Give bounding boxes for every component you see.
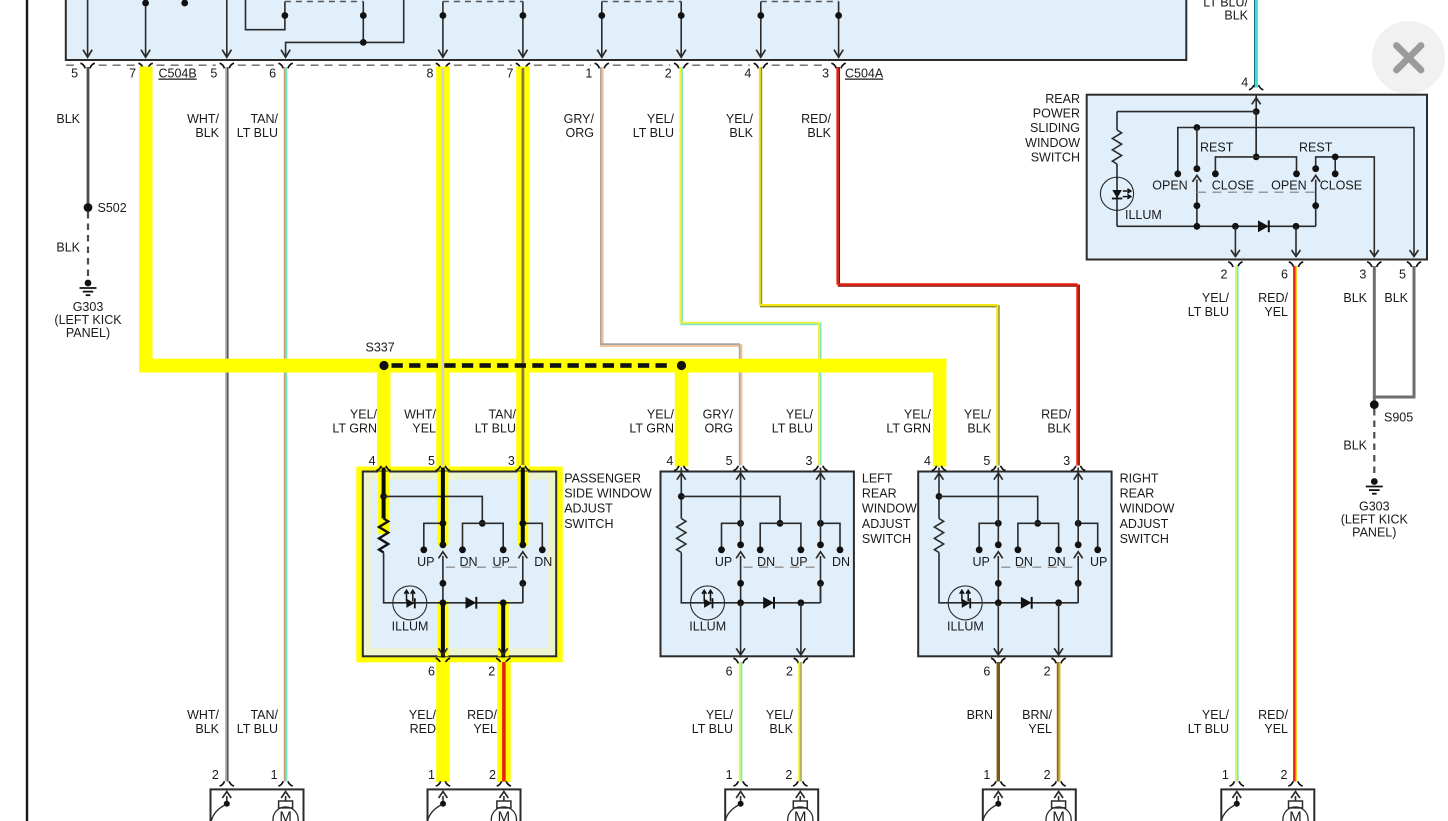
centre contact bracket [760,523,801,547]
svg-text:PANEL): PANEL) [66,326,110,340]
switch body [661,472,854,657]
svg-text:2: 2 [785,768,792,782]
svg-text:SWITCH: SWITCH [564,517,613,531]
ILLUM LED [948,586,982,620]
svg-text:RED/: RED/ [1258,708,1288,722]
svg-text:UP: UP [973,555,990,569]
svg-text:RED/: RED/ [801,112,831,126]
svg-text:OPEN: OPEN [1152,179,1187,193]
motor terminal [793,801,807,808]
svg-text:LT BLU: LT BLU [1188,722,1229,736]
svg-text:5: 5 [210,67,217,81]
wire BLK rear power pin 3 to S905 [1373,266,1376,401]
motor body [983,789,1076,821]
motor M circle [273,807,298,821]
svg-text:DN: DN [832,555,850,569]
pin 7 bracket (connector C504) [138,63,152,68]
rocker wiper 1 [736,552,745,559]
motor M circle [788,807,813,821]
feed wire to centre contacts [384,496,483,523]
svg-text:1: 1 [1222,768,1229,782]
pin 4 bracket [376,466,390,471]
node: pin4/resistor junction [1253,108,1260,115]
pin 3 internal wire / fixed contact [1077,468,1079,544]
svg-text:YEL: YEL [1264,722,1288,736]
pin 4 bracket [674,466,688,471]
svg-text:BLK: BLK [807,126,831,140]
svg-text:OPEN: OPEN [1271,179,1306,193]
motor brush contact [995,801,1001,807]
svg-text:DN: DN [534,555,552,569]
svg-text:6: 6 [983,665,990,679]
wire GRY/ORG from C504A pin 1 to left-rear switch pin 5 [600,67,602,344]
pin 3 bracket (connector C504) [831,63,845,68]
svg-text:WINDOW: WINDOW [1025,136,1080,150]
node: bus junction at left-rear drop [677,361,686,370]
svg-text:BRN/: BRN/ [1022,708,1052,722]
pin 1 bracket (connector C504) [595,63,609,68]
left sidebar divider [26,0,28,821]
pin 2 bracket [793,781,807,786]
pin 3 bracket [1367,262,1381,267]
svg-text:CLOSE: CLOSE [1212,179,1254,193]
motor terminal [1289,801,1303,808]
svg-text:YEL/: YEL/ [786,408,814,422]
wire WHT/YEL (highlighted) C504B pin 8 to passenger switch pin 5 [436,67,450,467]
svg-text:BLK: BLK [195,722,219,736]
motor M circle [1283,807,1308,821]
diode [763,597,774,609]
svg-text:BRN: BRN [967,708,993,722]
resistor [934,519,943,553]
svg-text:LT BLU: LT BLU [237,722,278,736]
wire YEL/LT BLU left-rear pin 6 to motor 3 [739,662,741,782]
svg-text:5: 5 [726,454,733,468]
pin 2 bracket [497,781,511,786]
pin 2 bracket [496,658,510,663]
svg-text:3: 3 [822,67,829,81]
svg-text:1: 1 [585,67,592,81]
pin 2 bracket [1051,658,1065,663]
wire: C504B pin 5 feed [83,0,92,57]
svg-text:4: 4 [924,454,931,468]
svg-text:ADJUST: ADJUST [564,502,613,516]
mechanical link (dashed) [1197,191,1316,193]
svg-text:BLK: BLK [1343,291,1367,305]
switch body [363,472,556,657]
svg-text:2: 2 [489,768,496,782]
svg-text:TAN/: TAN/ [488,408,516,422]
rocker wiper 2 [1074,552,1083,559]
motor internal entry arrows [226,796,228,804]
svg-text:6: 6 [269,67,276,81]
rocker 2 fixed contact [1312,165,1319,172]
svg-text:TAN/: TAN/ [250,112,278,126]
svg-text:2: 2 [665,67,672,81]
ground G303 (left) [85,280,92,287]
svg-text:M: M [498,808,511,821]
feed wire to centre contacts [681,496,780,523]
left contact bracket [979,523,998,547]
ILLUM LED [393,586,427,620]
motor body [211,789,304,821]
node J1 [936,493,943,500]
wire: C504A pin 1 feed [597,2,606,58]
diode [1258,220,1269,232]
mechanical link (dashed) [1001,566,1076,568]
svg-text:YEL: YEL [473,722,497,736]
svg-text:SWITCH: SWITCH [1120,532,1169,546]
svg-text:REAR: REAR [862,487,897,501]
svg-text:ILLUM: ILLUM [392,620,429,634]
rear power sliding window switch body [1087,95,1427,260]
wire YEL/BLK from C504A pin 4 to right-rear switch pin 5 [759,67,761,305]
pin 6 internal exit wire [997,603,999,658]
motor body [1221,789,1314,821]
svg-text:BLK: BLK [56,112,80,126]
svg-text:BLK: BLK [1343,439,1367,453]
rocker 2 wiper [1311,175,1320,182]
svg-text:BLK: BLK [195,126,219,140]
bus wire to bottom pins [741,602,821,604]
wire: internal U-link to pin 6 branch [246,0,289,30]
svg-text:3: 3 [1359,268,1366,282]
svg-text:ADJUST: ADJUST [1120,517,1169,531]
svg-text:UP: UP [417,555,434,569]
motor internal entry arrows [1236,796,1238,804]
wire LT BLU/BLK into rear power sliding window switch pin 4 [1254,0,1256,88]
svg-text:8: 8 [426,67,433,81]
svg-text:M: M [279,808,292,821]
svg-text:5: 5 [1399,268,1406,282]
node J1 [678,493,685,500]
switch body [918,472,1111,657]
pin 5 exit arrow [1410,250,1419,257]
wire resistor to ILLUM LED [384,553,393,603]
svg-text:YEL: YEL [1028,722,1052,736]
right bracket / pin 3 net [1316,157,1375,256]
motor body [428,789,521,821]
wire YEL/LT GRN (highlighted) C504B pin 7 down [139,67,153,367]
svg-text:YEL: YEL [412,422,436,436]
svg-text:2: 2 [488,665,495,679]
motor M circle [1046,807,1071,821]
pin 5 bracket (connector C504) [80,63,94,68]
wire RED/BLK from C504A pin 3 to right-rear switch pin 3 [836,67,838,285]
motor brush contact [440,801,446,807]
svg-text:YEL/: YEL/ [766,708,794,722]
bus wire [1117,225,1316,227]
svg-text:GRY/: GRY/ [703,408,734,422]
pin 3 bracket [813,466,827,471]
pin 6 bracket [436,658,450,663]
svg-text:LT BLU: LT BLU [475,422,516,436]
motor M circle [491,807,516,821]
mechanical link (dashed) [744,566,819,568]
svg-text:6: 6 [428,665,435,679]
svg-text:4: 4 [369,454,376,468]
svg-text:2: 2 [1044,768,1051,782]
ILLUM LED [691,586,725,620]
svg-text:WHT/: WHT/ [404,408,436,422]
svg-text:4: 4 [1241,76,1248,90]
svg-text:M: M [794,808,807,821]
svg-text:YEL/: YEL/ [1202,708,1230,722]
wire: C504A pin 2 feed [677,2,686,58]
svg-text:ORG: ORG [566,126,594,140]
rocker wiper 1 [439,552,448,559]
motor internal entry arrows [442,796,444,804]
connector block body (top harness connector) [66,0,1187,60]
wire BRN right-rear pin 6 to motor 4 [997,662,1000,782]
svg-text:7: 7 [129,67,136,81]
resistor [1112,130,1121,164]
svg-text:BLK: BLK [729,126,753,140]
diode [1021,597,1032,609]
svg-text:REST: REST [1299,141,1333,155]
splice bus S337 (highlighted yellow) [139,359,947,373]
svg-text:5: 5 [71,67,78,81]
svg-text:YEL/: YEL/ [726,112,754,126]
svg-text:2: 2 [786,665,793,679]
svg-text:REST: REST [1200,141,1234,155]
pin 2 bracket (connector C504) [674,63,688,68]
wire YEL/LT BLU from C504A pin 2 to left-rear switch pin 3 [679,67,681,323]
svg-text:REAR: REAR [1120,487,1155,501]
svg-text:M: M [1052,808,1065,821]
pin 6 exit wire [1295,226,1297,255]
svg-text:C504B: C504B [159,67,197,81]
svg-text:2: 2 [1220,268,1227,282]
pin 6 internal exit wire [740,603,742,658]
svg-text:SLIDING: SLIDING [1030,121,1080,135]
wire BLK dashed S502 to ground [87,212,89,279]
svg-text:S905: S905 [1384,411,1413,425]
svg-text:YEL/: YEL/ [706,708,734,722]
svg-text:YEL/: YEL/ [647,112,675,126]
svg-text:3: 3 [1063,454,1070,468]
svg-text:G303: G303 [1359,500,1390,514]
svg-text:ILLUM: ILLUM [947,620,984,634]
svg-text:LT GRN: LT GRN [629,422,674,436]
wire: C504B pin 5 (WHT/BLK) feed [222,0,231,57]
wire YEL/BLK left-rear pin 2 to motor 3 [798,662,800,782]
svg-text:REAR: REAR [1045,92,1080,106]
pin 3 bracket [1071,466,1085,471]
pin 8 bracket (connector C504) [436,63,450,68]
pin 5 internal wire / fixed contact [740,468,742,544]
svg-text:SWITCH: SWITCH [862,532,911,546]
splice S337 [379,361,388,370]
svg-text:UP: UP [1090,555,1107,569]
pin 6 bracket [1289,262,1303,267]
svg-text:S502: S502 [98,201,127,215]
svg-text:3: 3 [508,454,515,468]
pin 5 bracket [436,466,450,471]
wire: C504A pin 3 feed [834,2,843,58]
wire: C504B pin 7 feed [141,0,150,57]
pin 6 bracket (connector C504) [278,63,292,68]
svg-text:BLK: BLK [56,241,80,255]
motor internal entry arrows [740,796,742,804]
pin 3 internal wire / fixed contact [820,468,822,544]
pin 5 bracket [1407,262,1421,267]
wire: dashed link above pin 6 [285,1,363,3]
rocker wiper 1 [994,552,1003,559]
svg-text:2: 2 [1281,768,1288,782]
pin 4 bracket [932,466,946,471]
wire TAN/LT BLU (highlighted) C504A pin 7 to passenger switch pin 3 [516,67,530,467]
splice S905 [1370,400,1379,409]
svg-text:YEL/: YEL/ [964,408,992,422]
wire resistor to ILLUM LED [939,553,948,603]
wire TAN/LT BLU from C504B pin 6 to motor 1 [284,67,286,782]
wire RED/YEL (highlighted) passenger pin 2 to motor 2 [497,662,511,782]
wire BLK rear power pin 5 to S905 [1374,266,1414,397]
wire BLK dashed S905 to ground [1373,409,1375,477]
svg-text:LT GRN: LT GRN [332,422,377,436]
svg-text:1: 1 [726,768,733,782]
motor terminal [279,801,293,808]
S337 dashed wire overlay [392,363,403,368]
svg-text:YEL: YEL [1264,305,1288,319]
svg-text:2: 2 [1044,665,1051,679]
centre feed wire [1255,112,1257,157]
mechanical link (dashed) [446,566,521,568]
pin 5 bracket (connector C504) [220,63,234,68]
svg-text:1: 1 [271,768,278,782]
svg-text:LT BLU: LT BLU [1188,305,1229,319]
svg-text:BLK: BLK [1224,9,1248,23]
pin 2 bracket [220,781,234,786]
svg-text:ILLUM: ILLUM [1125,208,1162,222]
left contact bracket [722,523,741,547]
rocker wiper 2 [518,552,527,559]
pin 4 bracket (connector C504) [754,63,768,68]
motor terminal [497,801,511,808]
motor brush contact [1234,801,1240,807]
svg-text:C504A: C504A [845,67,884,81]
highlight ring (traced circuit) [356,467,562,663]
svg-text:5: 5 [983,454,990,468]
rocker wiper 2 [816,552,825,559]
rocker 1 wiper [1193,175,1202,182]
pin 2 bracket [1288,781,1302,786]
right contact bracket [523,523,543,547]
svg-text:BLK: BLK [769,722,793,736]
pin 2 internal exit wire [501,603,505,658]
wire: C504B pin 8 feed [438,2,447,58]
svg-text:WINDOW: WINDOW [1120,502,1175,516]
wire: dashed link pin1-pin2 [602,1,681,3]
node J1 [380,493,387,500]
svg-text:SWITCH: SWITCH [1031,150,1080,164]
svg-text:CLOSE: CLOSE [1320,179,1362,193]
svg-text:RED/: RED/ [467,708,497,722]
svg-text:BLK: BLK [1047,422,1071,436]
wire: dashed link pin4-pin3 [761,1,839,3]
svg-text:PANEL): PANEL) [1352,525,1396,539]
pin 6 bracket [991,658,1005,663]
wire drop to passenger switch pin 4 [377,366,391,467]
right contact bracket [1078,523,1098,547]
left contact bracket [424,523,443,547]
pin 2 bracket [1051,781,1065,786]
pin 6 bracket [733,658,747,663]
pin 2 exit wire [1234,226,1236,255]
svg-text:7: 7 [506,67,513,81]
svg-text:LT BLU: LT BLU [772,422,813,436]
pin 7 bracket (connector C504) [516,63,530,68]
svg-text:1: 1 [983,768,990,782]
bus wire to bottom pins [443,602,523,604]
pin 1 bracket [1230,781,1244,786]
pin 2 internal exit wire [1058,603,1060,658]
svg-text:YEL/: YEL/ [350,408,378,422]
wire resistor to ILLUM LED [1116,164,1118,179]
svg-text:YEL/: YEL/ [647,408,675,422]
svg-text:RED/: RED/ [1041,408,1071,422]
close button [1372,21,1445,94]
pin 1 bracket [991,781,1005,786]
svg-text:WHT/: WHT/ [187,708,219,722]
svg-text:YEL/: YEL/ [409,708,437,722]
node: junction dot (isolated, harness above) [181,0,188,6]
motor body [725,789,818,821]
pin 4 internal wire [1255,95,1257,157]
svg-text:TAN/: TAN/ [250,708,278,722]
wire to resistor [1117,111,1256,113]
svg-text:RIGHT: RIGHT [1120,472,1159,486]
wire RED/YEL rear power pin 6 to motor 5 [1293,266,1295,782]
svg-text:3: 3 [806,454,813,468]
rocker 1 fixed contact [1196,128,1198,168]
motor terminal [1052,801,1066,808]
svg-text:2: 2 [212,768,219,782]
wire: C504A pin 7 feed [518,2,527,58]
svg-text:SIDE WINDOW: SIDE WINDOW [564,487,652,501]
pin 2 bracket [1228,262,1242,267]
svg-text:4: 4 [744,67,751,81]
wire: C504B pin 6 feed with side branch [281,0,404,57]
pin 2 bracket [794,658,808,663]
pin 4 bracket [1249,85,1263,90]
resistor [379,519,388,553]
svg-text:G303: G303 [73,300,104,314]
pin 3 exit arrow [1370,250,1379,257]
wire YEL/RED (highlighted) passenger pin 6 to motor 2 [436,662,450,782]
svg-text:ILLUM: ILLUM [689,620,726,634]
svg-text:LT BLU: LT BLU [237,126,278,140]
pin 4 internal wire [382,468,386,519]
svg-text:RED/: RED/ [1258,291,1288,305]
svg-text:POWER: POWER [1033,107,1080,121]
pin 1 bracket [436,781,450,786]
connector C504 dashed separator line [66,64,77,66]
svg-text:6: 6 [726,665,733,679]
wire resistor to ILLUM LED [681,553,690,603]
svg-text:BLK: BLK [1384,291,1408,305]
svg-text:LEFT: LEFT [862,472,893,486]
ground G303 (right) [1371,478,1378,485]
wire WHT/BLK from C504B pin 5 to motor 1 [225,67,227,782]
pin 1 bracket [733,781,747,786]
motor brush contact [738,801,744,807]
ILLUM LED [1100,177,1133,210]
centre contact bracket [463,523,504,547]
wire: C504A pin 4 feed [756,2,765,58]
svg-text:1: 1 [428,768,435,782]
